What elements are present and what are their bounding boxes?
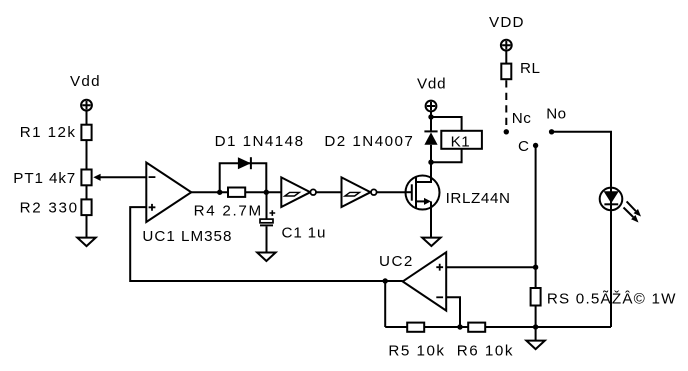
svg-text:R4 2.7M: R4 2.7M (194, 202, 263, 219)
svg-text:K1: K1 (451, 133, 471, 150)
svg-text:RL: RL (520, 60, 540, 77)
svg-text:R2 330: R2 330 (20, 200, 79, 217)
svg-text:D1 1N4148: D1 1N4148 (215, 133, 305, 150)
svg-text:C1 1u: C1 1u (282, 224, 327, 241)
svg-text:R6 10k: R6 10k (457, 343, 514, 360)
svg-text:C: C (518, 138, 529, 155)
svg-text:UC2: UC2 (379, 253, 414, 270)
svg-text:IRLZ44N: IRLZ44N (446, 190, 511, 207)
svg-text:R1 12k: R1 12k (20, 124, 77, 141)
svg-text:UC1 LM358: UC1 LM358 (142, 228, 232, 245)
svg-text:R5 10k: R5 10k (388, 343, 445, 360)
svg-text:VDD: VDD (489, 14, 525, 31)
svg-text:D2 1N4007: D2 1N4007 (324, 133, 414, 150)
svg-text:PT1 4k7: PT1 4k7 (13, 170, 76, 187)
svg-text:Nc: Nc (512, 110, 532, 127)
svg-text:Vdd: Vdd (417, 76, 446, 93)
svg-text:Vdd: Vdd (70, 73, 101, 90)
svg-text:No: No (546, 105, 566, 122)
